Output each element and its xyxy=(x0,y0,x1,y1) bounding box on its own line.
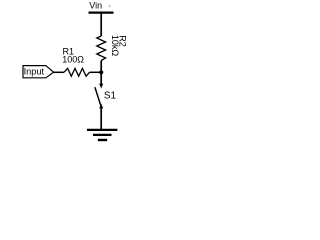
svg-text:100Ω: 100Ω xyxy=(62,55,84,65)
svg-text:10kΩ: 10kΩ xyxy=(110,35,120,57)
switch S1 bottom contact arrow xyxy=(99,103,103,108)
svg-text:Vin: Vin xyxy=(89,0,102,10)
wire junction to switch xyxy=(100,72,102,84)
wire R1 to junction xyxy=(90,71,102,73)
wire Input to R1 xyxy=(54,71,64,73)
ground xyxy=(87,130,117,140)
wire switch to ground xyxy=(100,108,102,130)
switch S1 blade xyxy=(95,87,101,105)
resistor R2 xyxy=(97,36,106,61)
switch S1 top contact arrow xyxy=(99,84,103,89)
pink marker dot xyxy=(108,5,111,8)
net flag Input xyxy=(23,66,54,78)
svg-text:S1: S1 xyxy=(104,91,117,102)
resistor R1 xyxy=(64,68,90,76)
wire R2 to junction xyxy=(100,61,102,73)
power rail Vin bar xyxy=(89,11,114,13)
junction node xyxy=(99,70,103,74)
svg-text:Input: Input xyxy=(24,67,45,77)
wire Vin bar to R2 xyxy=(100,13,102,36)
